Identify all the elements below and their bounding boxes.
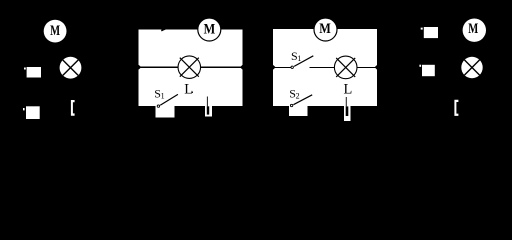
svg-text:1: 1 <box>161 92 165 101</box>
svg-text:M: M <box>319 21 331 37</box>
svg-text:M: M <box>204 22 216 38</box>
svg-text:2: 2 <box>296 91 300 100</box>
svg-text:1: 1 <box>297 54 301 63</box>
svg-text:L: L <box>344 82 353 98</box>
svg-text:M: M <box>50 23 60 39</box>
svg-text:M: M <box>468 21 478 37</box>
svg-text:L: L <box>184 82 193 98</box>
